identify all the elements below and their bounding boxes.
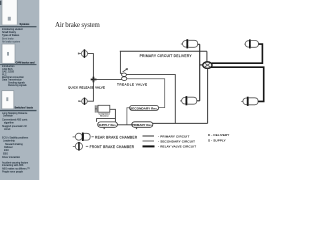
svg-text:D - DELIVERY: D - DELIVERY: [208, 133, 229, 137]
svg-text:PRIMARY Res.: PRIMARY Res.: [132, 123, 153, 127]
rear brake chamber FR plate: [249, 39, 251, 48]
wire: junction down to lower chamber: [87, 79, 93, 101]
legend front brake chamber symbol: [73, 143, 83, 150]
front brake chamber (left-bottom) circle: [82, 98, 88, 104]
secondary reservoir: [130, 105, 159, 110]
svg-text:PRIMARY CIRCUIT DELIVERY: PRIMARY CIRCUIT DELIVERY: [140, 54, 193, 58]
wire: supply bridge: [97, 119, 116, 122]
legend front chamber plate: [78, 142, 80, 151]
svg-text:REAR BRAKE CHAMBER: REAR BRAKE CHAMBER: [95, 135, 138, 139]
front brake chamber (left-top) port square: [78, 53, 79, 55]
slide 3 bullets: [2, 112, 30, 173]
svg-text:FRONT BRAKE CHAMBER: FRONT BRAKE CHAMBER: [90, 145, 135, 149]
slide 1 bullets: [2, 28, 23, 44]
svg-text:- SECONDARY CIRCUIT: - SECONDARY CIRCUIT: [158, 139, 195, 143]
wire: fitting east lower to chamber RR: [211, 67, 264, 101]
slide icon 1: [2, 0, 17, 25]
front brake chamber (left-top) circle: [81, 51, 87, 57]
front brake chamber (left-top) tick: [78, 53, 81, 55]
wire: fitting north stub: [206, 51, 208, 62]
slide title: [55, 21, 100, 29]
wire: fitting south to primary reservoir line: [207, 68, 209, 123]
wire: treadle valve up to delivery line: [120, 51, 122, 73]
wire: chamber FL to fitting column: [198, 43, 200, 45]
legend secondary circuit line sample: [143, 140, 155, 142]
front brake chamber (left-bottom) port square: [78, 100, 79, 102]
slide icon 3: [2, 91, 14, 109]
sidebar outline pane: [0, 0, 53, 180]
svg-text:SUPPLY Res.: SUPPLY Res.: [98, 123, 116, 127]
svg-text:QUICK RELEASE VALVE: QUICK RELEASE VALVE: [68, 85, 105, 89]
svg-text:- PRIMARY CIRCUIT: - PRIMARY CIRCUIT: [158, 134, 189, 138]
wire: junction to treadle valve: [93, 78, 121, 80]
legend rear brake chamber symbol: [73, 133, 91, 140]
label: front brake chamber: [86, 145, 88, 147]
slide icon 2: [2, 44, 15, 63]
treadle valve body upper ellipse: [122, 73, 127, 76]
rear brake chamber RL (bottom-left): [180, 97, 197, 104]
svg-text:SECONDARY Res.: SECONDARY Res.: [130, 106, 158, 110]
compressor piston bars: [95, 105, 97, 112]
legend rear chamber plate: [82, 133, 84, 142]
port tick under supply reservoir: [104, 127, 105, 129]
svg-text:- RELAY VALVE CIRCUIT: - RELAY VALVE CIRCUIT: [158, 145, 196, 149]
rear brake chamber FR (top-right): [244, 41, 258, 48]
quick release valve junction cross: [93, 77, 95, 83]
svg-text:TREADLE VALVE: TREADLE VALVE: [117, 83, 148, 87]
rear brake chamber RL plate: [186, 96, 188, 105]
svg-text:Governor: Governor: [100, 114, 109, 117]
svg-text:S - SUPPLY: S - SUPPLY: [208, 138, 226, 142]
wire: treadle upper output to primary line down: [127, 75, 176, 124]
wire: treadle lower output to secondary reservoir: [127, 79, 165, 108]
legend relay valve circuit line sample: [143, 145, 155, 147]
separator 1: [0, 26, 37, 27]
rear brake chamber FL plate: [186, 39, 188, 48]
separator 3: [0, 110, 37, 111]
wire: left vertical column through fitting west: [199, 44, 201, 101]
wire: chamber RL to column: [197, 100, 200, 102]
supply reservoir: [98, 122, 118, 127]
wire: chamber to quick release junction: [88, 54, 94, 80]
compressor body: [98, 105, 110, 112]
slide icon 1 glyph: [8, 17, 11, 21]
wire: supply to primary: [117, 124, 131, 126]
separator 2: [0, 64, 37, 65]
corner mark: [0, 1, 1, 5]
wire: fitting east upper to chamber FR: [212, 44, 263, 63]
slide 2 bullets: [2, 65, 27, 87]
rear brake chamber RR plate: [247, 97, 249, 106]
rear brake chamber FL (top-left): [181, 40, 198, 47]
rear brake chamber RR (bottom-right): [241, 98, 258, 105]
wire: primary circuit bottom line: [153, 122, 208, 124]
wire: compressor output to supply reservoir: [110, 109, 116, 122]
front brake chamber (left-bottom) plate: [84, 98, 85, 105]
legend primary circuit line sample: [143, 135, 155, 137]
front brake chamber (left-bottom) tick: [79, 100, 82, 102]
treadle valve body lower ellipse: [122, 77, 127, 81]
treadle valve pedal arrow: [123, 69, 128, 72]
wire: top primary delivery line: [120, 50, 207, 52]
primary reservoir: [132, 122, 153, 128]
wire: secondary reservoir left elbow down: [127, 108, 130, 125]
front brake chamber (left-top) plate: [84, 49, 86, 58]
label: rear brake chamber: [92, 136, 94, 138]
sidebar background: [0, 0, 39, 180]
cross pipe fitting: [203, 62, 212, 69]
slide icon 3 glyph: [6, 97, 8, 101]
port tick under primary reservoir: [136, 127, 137, 129]
slide icon 2 glyph: [7, 52, 9, 56]
